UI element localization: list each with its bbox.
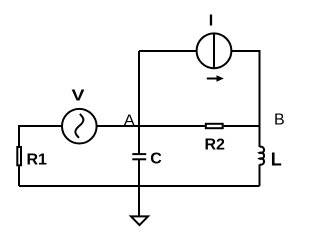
svg-text:A: A: [124, 113, 135, 130]
wire V source to node A: [96, 125, 139, 127]
svg-text:R1: R1: [27, 152, 48, 169]
wire top horizontal right and right riser down to inductor: [231, 51, 260, 147]
voltage source V1: [62, 109, 97, 144]
wire capacitor to ground stem: [138, 159, 140, 216]
resistor R1: [17, 147, 21, 165]
svg-text:V: V: [72, 88, 85, 105]
wire middle branch right (R2 to node B): [224, 125, 260, 127]
resistor R2: [206, 124, 223, 128]
svg-text:R2: R2: [205, 137, 226, 154]
current direction arrow: [207, 75, 224, 82]
svg-text:I: I: [209, 13, 213, 30]
ground: [131, 216, 148, 225]
capacitor C: [132, 154, 146, 159]
svg-text:C: C: [150, 151, 162, 168]
wire middle branch left (node A to R2): [139, 125, 205, 127]
current source U1: [197, 33, 232, 68]
svg-text:L: L: [271, 150, 282, 170]
wire inductor down to bottom rail: [259, 164, 261, 186]
svg-text:B: B: [274, 112, 285, 129]
wire bottom rail: [19, 185, 260, 187]
wire node A riser (top corner down through node A to capacitor): [138, 51, 140, 153]
wire top horizontal left (corner to current source): [139, 50, 197, 52]
wire R1 down to bottom rail: [18, 166, 20, 186]
wire left branch (V source to left edge, down to R1): [19, 126, 62, 146]
inductor L: [260, 147, 265, 165]
